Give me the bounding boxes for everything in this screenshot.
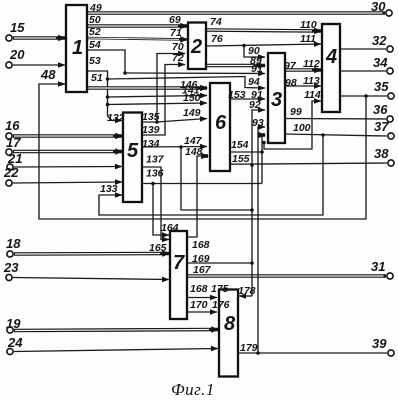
svg-text:153: 153 [228,89,246,101]
svg-text:91: 91 [251,63,263,75]
svg-text:110: 110 [300,19,317,31]
svg-text:168: 168 [192,239,210,251]
svg-text:135: 135 [142,111,160,123]
svg-text:132: 132 [107,112,125,124]
svg-text:54: 54 [89,39,101,51]
svg-text:53: 53 [89,55,101,67]
svg-text:93: 93 [252,117,264,129]
svg-text:8: 8 [224,313,236,335]
svg-text:2: 2 [190,36,202,58]
svg-text:17: 17 [6,135,21,150]
svg-text:38: 38 [374,146,389,161]
svg-text:49: 49 [89,2,102,14]
svg-text:112: 112 [303,58,320,70]
svg-text:154: 154 [231,139,249,151]
svg-text:149: 149 [183,107,201,119]
svg-text:91: 91 [251,89,263,101]
svg-text:71: 71 [170,27,182,39]
svg-text:176: 176 [212,299,230,311]
svg-text:97: 97 [284,60,297,72]
svg-text:150: 150 [183,92,201,104]
svg-text:178: 178 [238,285,256,297]
svg-text:111: 111 [300,33,316,45]
svg-text:136: 136 [146,168,164,180]
svg-text:35: 35 [374,79,389,94]
svg-text:69: 69 [169,14,181,26]
svg-text:74: 74 [210,16,222,28]
svg-text:51: 51 [91,72,103,84]
svg-text:179: 179 [240,342,258,354]
svg-text:34: 34 [373,55,388,70]
svg-text:3: 3 [271,89,282,111]
svg-text:37: 37 [374,119,389,134]
svg-text:1: 1 [72,37,83,59]
svg-text:167: 167 [193,264,212,276]
svg-text:19: 19 [6,316,21,331]
svg-text:39: 39 [372,336,387,351]
svg-text:6: 6 [215,112,227,134]
svg-text:72: 72 [172,52,184,64]
svg-text:114: 114 [304,89,321,101]
svg-text:48: 48 [40,67,56,82]
svg-text:98: 98 [285,77,297,89]
svg-text:139: 139 [142,124,160,136]
svg-text:99: 99 [290,106,302,118]
svg-text:5: 5 [127,140,139,162]
svg-text:Фиг.1: Фиг.1 [171,380,215,399]
svg-text:155: 155 [232,153,250,165]
svg-text:23: 23 [3,260,19,275]
svg-text:20: 20 [9,47,25,62]
svg-text:165: 165 [149,242,167,254]
svg-text:30: 30 [371,0,386,14]
svg-text:170: 170 [190,299,208,311]
svg-text:16: 16 [5,118,20,133]
svg-text:18: 18 [6,236,21,251]
svg-text:148: 148 [185,146,203,158]
svg-text:134: 134 [142,138,160,150]
svg-text:36: 36 [373,102,388,117]
svg-text:4: 4 [325,46,337,68]
svg-text:168: 168 [190,283,208,295]
svg-text:137: 137 [146,154,165,166]
svg-text:7: 7 [173,252,185,274]
svg-text:15: 15 [10,20,25,35]
svg-text:100: 100 [293,122,311,134]
svg-text:113: 113 [303,75,320,87]
svg-text:21: 21 [7,151,22,166]
svg-text:52: 52 [89,26,101,38]
svg-text:24: 24 [7,335,23,350]
svg-text:94: 94 [248,76,260,88]
svg-text:22: 22 [3,165,19,180]
svg-text:133: 133 [100,183,118,195]
svg-text:175: 175 [211,283,229,295]
svg-text:164: 164 [161,222,179,234]
svg-text:50: 50 [89,14,101,26]
svg-text:76: 76 [211,33,223,45]
svg-text:32: 32 [372,33,387,48]
svg-text:31: 31 [371,259,385,274]
